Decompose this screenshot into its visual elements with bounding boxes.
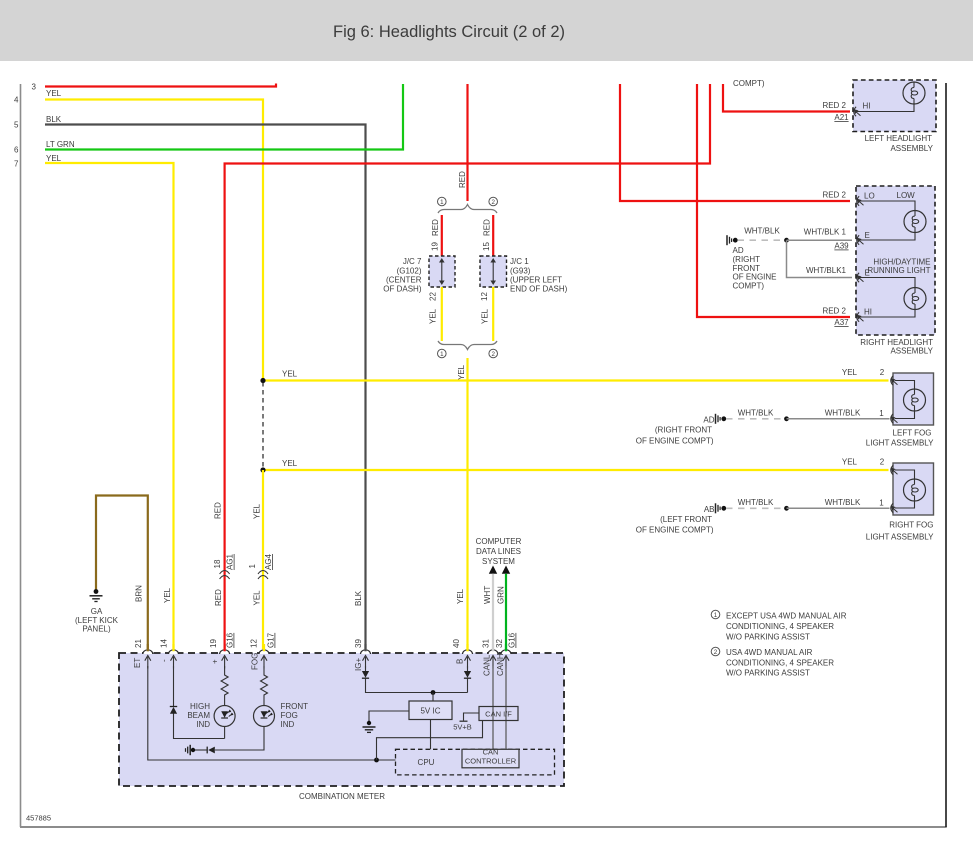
- svg-text:IND: IND: [196, 720, 210, 729]
- svg-text:18: 18: [213, 559, 222, 568]
- wire stub pin 21: [147, 644, 149, 651]
- svg-text:BLK: BLK: [354, 590, 363, 606]
- svg-text:2: 2: [714, 649, 718, 656]
- frame right border: [945, 83, 947, 827]
- svg-text:HI: HI: [864, 308, 872, 317]
- header bar: [0, 0, 973, 61]
- svg-text:(G102): (G102): [397, 266, 422, 275]
- svg-text:AB: AB: [704, 505, 715, 514]
- wire RED to right headlight HI (A37): [697, 84, 850, 317]
- wire stub pin 12: [263, 644, 265, 651]
- right fog internal wires: [895, 470, 915, 508]
- diode pin 39 (down): [362, 671, 369, 678]
- svg-text:W/O PARKING ASSIST: W/O PARKING ASSIST: [726, 669, 810, 678]
- wire below LED front fog: [215, 727, 264, 751]
- svg-text:19: 19: [209, 639, 218, 648]
- pin 14 bump: [169, 650, 179, 654]
- wire pin 14 internal: [174, 666, 225, 739]
- wire 4 YEL: [45, 100, 263, 381]
- svg-text:2: 2: [880, 368, 885, 377]
- wire RED to right headlight LO: [620, 84, 850, 201]
- right headlight LO wire: [860, 201, 915, 211]
- pin arrow E lower: [857, 273, 864, 283]
- svg-text:OF DASH): OF DASH): [383, 285, 422, 294]
- bulb left fog: [904, 389, 926, 411]
- bulb low beam: [904, 211, 926, 233]
- wire GRN CANH: [505, 574, 507, 649]
- svg-text:LEFT HEADLIGHT: LEFT HEADLIGHT: [865, 134, 933, 143]
- circled 1 bottom: [438, 349, 447, 358]
- svg-text:END OF DASH): END OF DASH): [510, 285, 568, 294]
- svg-text:BEAM: BEAM: [187, 711, 210, 720]
- svg-text:OF ENGINE COMPT): OF ENGINE COMPT): [636, 437, 714, 446]
- svg-text:LIGHT ASSEMBLY: LIGHT ASSEMBLY: [866, 533, 934, 542]
- LED high beam ind: [214, 706, 235, 727]
- LED front fog ind: [254, 706, 275, 727]
- svg-text:WHT/BLK: WHT/BLK: [825, 409, 861, 418]
- connector AG1 symbol: [220, 571, 230, 575]
- svg-text:4: 4: [14, 96, 19, 105]
- svg-text:RED 2: RED 2: [822, 101, 846, 110]
- circled 1 top: [438, 197, 447, 206]
- wire stub pin 14: [172, 644, 174, 651]
- svg-text:FOG: FOG: [251, 653, 260, 670]
- svg-text:IND: IND: [281, 720, 295, 729]
- node dot right fog yel: [260, 467, 265, 472]
- svg-text:J/C 1: J/C 1: [510, 257, 529, 266]
- svg-text:YEL: YEL: [481, 308, 490, 324]
- resistor high beam: [221, 666, 228, 706]
- svg-text:YEL: YEL: [253, 503, 262, 519]
- svg-text:A21: A21: [834, 113, 849, 122]
- svg-text:G17: G17: [267, 632, 276, 648]
- svg-text:DATA LINES: DATA LINES: [476, 547, 521, 556]
- svg-text:RUNNING LIGHT: RUNNING LIGHT: [867, 266, 930, 275]
- svg-text:YEL: YEL: [429, 308, 438, 324]
- svg-text:A39: A39: [834, 242, 849, 251]
- svg-text:5V+B: 5V+B: [453, 723, 472, 732]
- wire YEL down to AG4 and meter pin 12: [262, 470, 264, 649]
- svg-text:39: 39: [354, 639, 363, 648]
- svg-text:31: 31: [482, 639, 491, 648]
- pin arrow LO: [857, 196, 864, 206]
- diode to ground (left): [208, 747, 215, 754]
- svg-text:COMPT): COMPT): [733, 79, 765, 88]
- svg-text:14: 14: [160, 639, 169, 648]
- 5V IC box: [409, 701, 452, 720]
- svg-text:1: 1: [248, 564, 257, 569]
- svg-text:1: 1: [440, 199, 444, 206]
- wire RED branch 2 to J/C 1: [492, 215, 494, 256]
- wire YEL below J/C 1: [492, 287, 494, 341]
- svg-text:EXCEPT USA 4WD MANUAL AIR: EXCEPT USA 4WD MANUAL AIR: [726, 612, 847, 621]
- svg-text:YEL: YEL: [456, 588, 465, 604]
- pin 19 arrow: [222, 656, 228, 669]
- svg-text:AD: AD: [703, 416, 714, 425]
- svg-text:RED: RED: [482, 219, 491, 236]
- right headlight HI wire: [860, 310, 915, 318]
- pin arrow 1 right fog: [891, 503, 898, 513]
- wire below LED high beam: [224, 727, 226, 739]
- ground AD right front engine compt (headlight): [727, 235, 738, 245]
- wire stub pin 32: [505, 644, 507, 651]
- wire stub pin 39: [364, 644, 366, 651]
- svg-text:RED: RED: [214, 502, 223, 519]
- svg-text:ET: ET: [133, 658, 142, 668]
- wire diode 40 to bus: [467, 678, 469, 692]
- svg-text:BLK: BLK: [46, 115, 62, 124]
- wire stub pin 40: [466, 644, 468, 651]
- ground GA symbol: [94, 589, 99, 594]
- svg-text:WHT/BLK1: WHT/BLK1: [806, 266, 847, 275]
- svg-text:G16: G16: [226, 632, 235, 648]
- svg-text:E: E: [865, 269, 870, 278]
- frame bottom border: [20, 826, 947, 828]
- svg-text:RED 2: RED 2: [822, 307, 846, 316]
- svg-text:(RIGHT FRONT: (RIGHT FRONT: [655, 426, 712, 435]
- svg-text:WHT/BLK: WHT/BLK: [825, 498, 861, 507]
- junction dot left fog gnd: [784, 416, 789, 421]
- pin arrow E upper: [857, 235, 864, 245]
- pin arrow 2 left fog: [891, 376, 898, 386]
- svg-text:6: 6: [14, 146, 19, 155]
- svg-text:15: 15: [482, 242, 491, 251]
- svg-text:1: 1: [879, 409, 884, 418]
- svg-text:LOW: LOW: [897, 191, 916, 200]
- svg-text:LIGHT ASSEMBLY: LIGHT ASSEMBLY: [866, 439, 934, 448]
- svg-text:12: 12: [250, 639, 259, 648]
- node dot left fog yel: [260, 378, 265, 383]
- option brace bottom: [438, 341, 497, 350]
- svg-text:CANH: CANH: [496, 653, 505, 676]
- wire 5V IC to ground: [369, 711, 409, 722]
- wire RED to option brace: [466, 84, 468, 201]
- wire pin 39 internal: [365, 666, 367, 671]
- svg-text:BRN: BRN: [135, 585, 144, 602]
- wire CANL internal: [492, 666, 494, 749]
- bulb high beam: [904, 288, 926, 310]
- note 2 circled: [711, 647, 720, 656]
- pin 39 arrow: [363, 656, 369, 669]
- wire YEL to right fog light: [263, 469, 889, 471]
- svg-text:FOG: FOG: [281, 711, 298, 720]
- wire 5V IC to CPU: [430, 720, 432, 750]
- svg-text:2: 2: [491, 199, 495, 206]
- svg-text:ASSEMBLY: ASSEMBLY: [890, 347, 933, 356]
- svg-text:OF ENGINE COMPT): OF ENGINE COMPT): [636, 526, 714, 535]
- svg-text:GA: GA: [91, 607, 103, 616]
- bulb right fog: [904, 479, 926, 501]
- combination meter box: [119, 653, 564, 786]
- pin 19 bump: [220, 650, 230, 654]
- pin 12 arrow: [261, 656, 267, 669]
- svg-text:USA 4WD MANUAL AIR: USA 4WD MANUAL AIR: [726, 648, 813, 657]
- svg-text:LT GRN: LT GRN: [46, 140, 75, 149]
- svg-text:YEL: YEL: [46, 89, 62, 98]
- wire 3 RED: [45, 84, 276, 87]
- svg-text:FRONT: FRONT: [281, 702, 309, 711]
- junction dot ET line: [374, 758, 379, 763]
- pin 39 bump: [361, 650, 371, 654]
- svg-text:ASSEMBLY: ASSEMBLY: [890, 144, 933, 153]
- svg-text:LEFT FOG: LEFT FOG: [893, 429, 932, 438]
- svg-text:YEL: YEL: [253, 590, 262, 606]
- J/C 1 internal arrow: [492, 262, 494, 282]
- svg-text:-: -: [160, 659, 169, 662]
- wire WHT/BLK to A39: [787, 239, 853, 241]
- pin 21 arrow: [145, 656, 151, 669]
- pin 31 arrow: [490, 656, 496, 669]
- svg-text:CAN: CAN: [483, 747, 499, 756]
- arrow CANL up: [489, 566, 497, 574]
- right headlight E wire upper: [860, 233, 915, 241]
- wire RED to combination meter pin 19: [225, 84, 710, 649]
- junction dot ground headlight: [784, 238, 789, 243]
- svg-text:COMPT): COMPT): [733, 282, 765, 291]
- J/C 7 junction connector: [429, 256, 455, 287]
- pin arrow 2 right fog: [891, 465, 898, 475]
- svg-text:LO: LO: [864, 192, 875, 201]
- wire WHT/BLK1 branch to E lower: [787, 240, 853, 277]
- svg-text:CONTROLLER: CONTROLLER: [465, 757, 517, 766]
- right headlight E wire lower: [860, 278, 915, 288]
- svg-text:RED 2: RED 2: [822, 191, 846, 200]
- right fog light assembly box: [893, 463, 934, 515]
- dashed WHT/BLK left fog: [726, 418, 787, 420]
- svg-text:32: 32: [495, 639, 504, 648]
- CAN CONTROLLER box: [462, 749, 519, 768]
- wire CANH internal: [505, 666, 507, 749]
- option brace top: [438, 205, 497, 214]
- wire diode to case ground: [195, 749, 207, 751]
- left headlight internal wire: [857, 104, 914, 112]
- svg-text:YEL: YEL: [282, 459, 298, 468]
- wire WHT/BLK to pin 1 right fog: [787, 507, 890, 509]
- svg-text:Fig 6: Headlights Circuit (2 o: Fig 6: Headlights Circuit (2 of 2): [333, 23, 565, 41]
- note 1 circled: [711, 610, 720, 619]
- pin 12 bump: [259, 650, 269, 654]
- dashed link between yel nodes: [262, 382, 264, 468]
- wire ET internal: [148, 666, 396, 760]
- pin 40 arrow: [465, 656, 471, 669]
- CPU dashed box: [396, 749, 555, 775]
- wire bus to 5V IC: [432, 693, 434, 702]
- svg-text:2: 2: [491, 351, 495, 358]
- svg-text:COMPUTER: COMPUTER: [476, 537, 522, 546]
- circled 2 top: [489, 197, 498, 206]
- wire YEL to left fog light: [263, 379, 889, 381]
- svg-text:A37: A37: [834, 318, 849, 327]
- svg-text:AG4: AG4: [264, 553, 273, 570]
- svg-text:B: B: [456, 659, 465, 664]
- J/C 7 internal arrow: [441, 262, 443, 282]
- svg-text:GRN: GRN: [496, 586, 505, 604]
- svg-text:WHT: WHT: [483, 586, 492, 604]
- svg-text:WHT/BLK: WHT/BLK: [738, 409, 774, 418]
- svg-text:CONDITIONING, 4 SPEAKER: CONDITIONING, 4 SPEAKER: [726, 622, 834, 631]
- svg-text:(LEFT FRONT: (LEFT FRONT: [660, 515, 712, 524]
- svg-text:21: 21: [134, 639, 143, 648]
- diode pin 40 (down): [464, 671, 471, 678]
- pin 32 bump: [501, 650, 511, 654]
- svg-text:CANL: CANL: [483, 654, 492, 676]
- connector AG4 symbol: [258, 571, 268, 575]
- right headlight assembly box: [856, 186, 935, 335]
- svg-text:IG+: IG+: [354, 658, 363, 671]
- ground 5V IC: [367, 721, 371, 725]
- svg-text:+: +: [211, 659, 220, 664]
- svg-text:5: 5: [14, 121, 19, 130]
- svg-text:CPU: CPU: [418, 758, 435, 767]
- ground AB right fog: [716, 503, 727, 513]
- svg-text:RED: RED: [458, 171, 467, 188]
- svg-text:(RIGHT: (RIGHT: [733, 255, 761, 264]
- pin arrow 1 left fog: [891, 414, 898, 424]
- pin 32 arrow: [503, 656, 509, 669]
- pin 31 bump: [488, 650, 498, 654]
- CAN I/F box: [479, 707, 518, 721]
- svg-text:(LEFT KICK: (LEFT KICK: [75, 616, 119, 625]
- arrow CANH up: [502, 566, 510, 574]
- svg-text:(G93): (G93): [510, 266, 531, 275]
- wire YEL merged to meter pin 40: [466, 358, 468, 649]
- case ground front fog: [191, 748, 195, 752]
- wire 7 YEL: [45, 163, 174, 649]
- pin arrow left headlight: [854, 107, 861, 117]
- svg-text:J/C 7: J/C 7: [403, 257, 422, 266]
- svg-text:40: 40: [452, 639, 461, 648]
- svg-text:3: 3: [32, 83, 37, 92]
- 5V+B tap: [464, 713, 480, 721]
- svg-text:W/O PARKING ASSIST: W/O PARKING ASSIST: [726, 633, 810, 642]
- svg-text:1: 1: [714, 612, 718, 619]
- junction dot right fog gnd: [784, 506, 789, 511]
- svg-text:1: 1: [879, 499, 884, 508]
- svg-text:RIGHT FOG: RIGHT FOG: [889, 521, 933, 530]
- svg-text:(CENTER: (CENTER: [386, 275, 422, 284]
- svg-text:WHT/BLK: WHT/BLK: [738, 498, 774, 507]
- pin 21 bump: [143, 650, 153, 654]
- svg-text:5V IC: 5V IC: [420, 707, 440, 716]
- wire RED to left headlight HI (A21): [723, 84, 850, 112]
- bulb left headlight HI: [903, 82, 925, 104]
- svg-text:CONDITIONING, 4 SPEAKER: CONDITIONING, 4 SPEAKER: [726, 659, 834, 668]
- svg-text:OF ENGINE: OF ENGINE: [733, 273, 777, 282]
- wire WHT CANL: [492, 574, 494, 649]
- junction dot 5v bus: [431, 690, 436, 695]
- svg-text:COMBINATION METER: COMBINATION METER: [299, 792, 385, 801]
- svg-text:2: 2: [880, 458, 885, 467]
- svg-text:YEL: YEL: [457, 364, 466, 380]
- svg-text:YEL: YEL: [282, 370, 298, 379]
- wire CAN I/F to ET line: [377, 721, 483, 761]
- frame left border: [20, 84, 22, 827]
- svg-text:WHT/BLK 1: WHT/BLK 1: [804, 228, 847, 237]
- wire stub pin 31: [492, 644, 494, 651]
- wire YEL below J/C 7: [441, 287, 443, 341]
- dashed WHT/BLK right fog: [726, 507, 787, 509]
- svg-text:(UPPER LEFT: (UPPER LEFT: [510, 275, 562, 284]
- svg-text:7: 7: [14, 160, 19, 169]
- svg-text:YEL: YEL: [46, 154, 62, 163]
- pin 40 bump: [463, 650, 473, 654]
- dashed ground wire WHT/BLK: [738, 239, 787, 241]
- wire WHT/BLK to pin 1 left fog: [787, 418, 890, 420]
- wire RED branch 1 to J/C 7: [441, 215, 443, 256]
- wire stub pin 19: [224, 644, 226, 651]
- svg-text:YEL: YEL: [842, 458, 858, 467]
- svg-text:AD: AD: [733, 246, 744, 255]
- svg-text:22: 22: [429, 292, 438, 301]
- svg-text:YEL: YEL: [163, 587, 172, 603]
- wire 5 BLK: [45, 125, 366, 650]
- left fog internal wires: [895, 381, 915, 419]
- wire pin 40 internal: [467, 666, 469, 671]
- svg-text:WHT/BLK: WHT/BLK: [744, 227, 780, 236]
- svg-text:RED: RED: [431, 219, 440, 236]
- wire 6 LT GRN: [45, 84, 403, 150]
- svg-text:YEL: YEL: [842, 368, 858, 377]
- pin 14 arrow: [171, 656, 177, 669]
- svg-text:E: E: [865, 231, 870, 240]
- svg-text:19: 19: [431, 242, 440, 251]
- resistor front fog: [261, 666, 268, 706]
- svg-text:1: 1: [440, 351, 444, 358]
- svg-text:HIGH: HIGH: [190, 702, 210, 711]
- diode pin 14 (up): [170, 706, 177, 708]
- svg-text:457885: 457885: [26, 814, 51, 823]
- J/C 1 junction connector: [480, 256, 507, 287]
- wire diode 39 to bus: [366, 678, 468, 692]
- svg-text:G16: G16: [508, 632, 517, 648]
- svg-text:AG1: AG1: [226, 553, 235, 570]
- svg-text:CAN I/F: CAN I/F: [485, 710, 512, 719]
- circled 2 bottom: [489, 349, 498, 358]
- pin arrow HI right: [857, 312, 864, 322]
- svg-text:SYSTEM: SYSTEM: [482, 557, 515, 566]
- svg-text:PANEL): PANEL): [82, 625, 111, 634]
- ground AD left fog: [716, 414, 727, 424]
- svg-text:12: 12: [480, 292, 489, 301]
- svg-text:RED: RED: [214, 589, 223, 606]
- left headlight assembly box: [853, 80, 936, 132]
- ground GA wire BRN: [96, 496, 148, 650]
- svg-text:HI: HI: [863, 102, 871, 111]
- left fog light assembly box: [893, 373, 934, 425]
